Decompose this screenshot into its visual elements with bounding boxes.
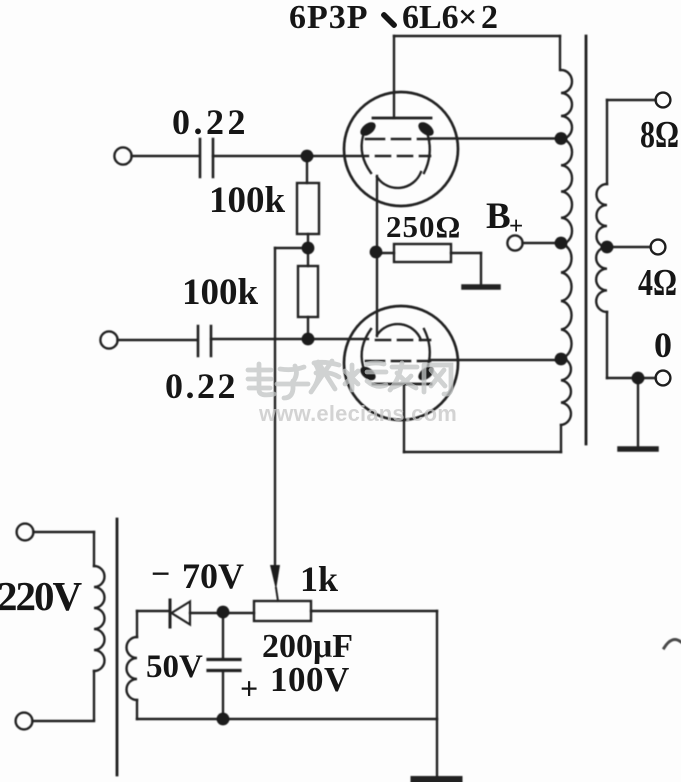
svg-text:2: 2: [481, 0, 498, 36]
svg-text:50V: 50V: [146, 649, 203, 685]
svg-text:6L6: 6L6: [402, 0, 459, 36]
svg-text:0: 0: [654, 325, 672, 365]
svg-text:+: +: [240, 670, 258, 706]
svg-text:70V: 70V: [182, 556, 244, 596]
svg-text:100k: 100k: [209, 180, 286, 221]
svg-text:250Ω: 250Ω: [386, 209, 461, 244]
svg-text:1k: 1k: [300, 559, 338, 599]
svg-text:100k: 100k: [182, 272, 259, 313]
svg-text:6P3P: 6P3P: [289, 0, 369, 36]
svg-text:www.elecians.com: www.elecians.com: [258, 401, 457, 426]
svg-text:8Ω: 8Ω: [640, 114, 679, 156]
svg-text:0.22: 0.22: [172, 102, 249, 142]
svg-text:220V: 220V: [0, 573, 83, 619]
svg-text:4Ω: 4Ω: [638, 262, 677, 304]
svg-text:100V: 100V: [270, 660, 350, 699]
svg-text:B: B: [486, 196, 511, 237]
svg-text:+: +: [509, 213, 523, 240]
svg-text:0.22: 0.22: [165, 366, 238, 406]
svg-text:×: ×: [458, 0, 477, 36]
svg-text:−: −: [151, 556, 170, 593]
